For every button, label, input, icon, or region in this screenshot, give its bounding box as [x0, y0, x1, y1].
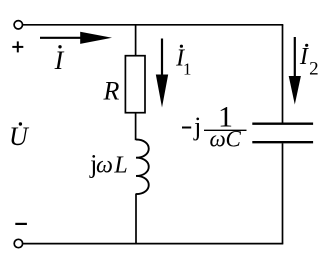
dot over I	[58, 45, 61, 48]
inductor jwL coil	[136, 140, 149, 195]
svg-text:1: 1	[183, 60, 192, 79]
arrow I1	[156, 39, 168, 108]
svg-text:R: R	[102, 77, 119, 106]
svg-text:I: I	[54, 46, 65, 75]
terminal top-left	[14, 21, 22, 29]
capacitor impedance label -j 1/wC	[182, 101, 247, 152]
wire right branch lower	[282, 143, 284, 243]
capacitor bottom plate	[252, 141, 313, 143]
svg-text:L: L	[113, 152, 127, 178]
capacitor top plate	[252, 122, 313, 124]
label jwL	[89, 149, 128, 178]
plus sign	[12, 41, 23, 52]
minus sign	[15, 223, 27, 225]
minus of -j	[182, 127, 191, 129]
svg-text:j: j	[193, 112, 201, 141]
dot over I2	[305, 44, 308, 47]
svg-text:2: 2	[309, 59, 319, 80]
terminal bottom-left	[14, 239, 22, 247]
wire bottom horizontal	[23, 243, 283, 245]
svg-text:U: U	[9, 122, 30, 151]
resistor R body	[125, 56, 145, 113]
dot over U	[19, 122, 22, 125]
dot over I1	[180, 45, 183, 48]
fraction bar	[204, 129, 247, 131]
svg-text:ω: ω	[209, 127, 225, 152]
wire right branch upper	[282, 25, 284, 123]
wire between resistor and inductor	[135, 113, 137, 141]
wire top horizontal	[23, 24, 283, 26]
svg-text:I: I	[299, 44, 309, 70]
current I arrow	[40, 32, 112, 44]
wire middle branch lower	[135, 194, 137, 244]
svg-text:C: C	[226, 127, 242, 152]
svg-text:ω: ω	[96, 152, 113, 178]
wire middle branch upper	[135, 25, 137, 57]
arrow I2	[289, 37, 301, 105]
